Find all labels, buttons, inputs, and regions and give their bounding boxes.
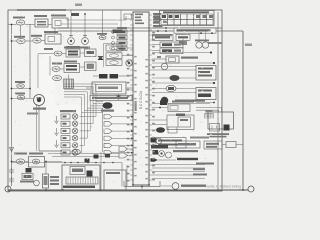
label NR1 above frame (75, 4, 82, 7)
fuel temp box (152, 104, 190, 112)
cold start valve box A (160, 42, 183, 48)
third oval (53, 75, 62, 80)
fusible link sym (17, 95, 25, 100)
label ignition SW (13, 17, 25, 19)
wire thermal row (152, 103, 210, 105)
small marks under meter (179, 39, 187, 46)
wire center long drop (102, 108, 104, 152)
credit text (205, 185, 241, 189)
cold start valve box B (160, 48, 183, 54)
ECU pin text col (135, 101, 137, 111)
check connector stems (199, 31, 206, 42)
inner box right (178, 117, 191, 127)
wire to container (152, 120, 167, 125)
tachometer circle (142, 183, 179, 190)
label AAC valve (181, 57, 198, 59)
label coil column (60, 110, 76, 112)
label ignition switch (15, 81, 25, 83)
dark hatched connector (64, 75, 74, 89)
label oil pressure switch (173, 150, 198, 152)
wire stair 2 (61, 23, 118, 25)
wire speedo bus 1 (58, 27, 222, 29)
label coils (64, 47, 90, 49)
wire signal rows (152, 165, 205, 179)
abs label (190, 137, 209, 139)
consult connector box (153, 35, 174, 41)
ignition switch sym (17, 84, 25, 89)
ECU inner pin labels left (134, 56, 136, 176)
label fuel pump relays (14, 153, 43, 155)
wire starter drop (37, 104, 40, 151)
fusible link 2 (9, 177, 14, 183)
injector resistor sym (166, 85, 176, 91)
data link box (176, 35, 190, 41)
label ECCS CU vertical (139, 90, 143, 109)
wire ign switch row (12, 88, 31, 90)
border frame (8, 10, 222, 191)
distributor circle (126, 60, 132, 66)
fuse row 2 (112, 36, 128, 40)
throttle valve switch box (208, 112, 234, 129)
fuel pump check sym (34, 180, 40, 186)
amplifier channels (104, 115, 133, 155)
SMJ box (62, 165, 100, 190)
battery terminal right (248, 186, 254, 192)
main relay box (45, 34, 61, 44)
wire long bottom bus (12, 162, 128, 187)
wire CAS to ECU (122, 48, 133, 56)
oil pressure switch (153, 150, 172, 158)
wire inj res (152, 89, 196, 93)
label tachometer (181, 185, 206, 187)
check connector circles (195, 40, 209, 49)
starter motor (34, 95, 45, 106)
relay ignition SW (16, 20, 24, 25)
small box top mid (124, 14, 132, 19)
right box R1 (196, 66, 216, 81)
wire throttle feed (196, 102, 222, 112)
EFI switch oval (44, 48, 62, 56)
box mid right row (176, 141, 200, 148)
MT AT box (104, 170, 126, 190)
ECU left pin numbers (127, 54, 130, 182)
wire long row A (152, 51, 212, 53)
ECU ECCS control unit (133, 12, 149, 185)
throttle comp 2 (224, 125, 230, 131)
wire relay row1 (8, 24, 52, 26)
row symbol dark (85, 154, 111, 163)
wire relay row2 (11, 40, 45, 42)
ECU top labels (135, 14, 144, 25)
label thermal transmitter (175, 100, 205, 102)
O2 sensor (170, 75, 180, 81)
label speedometer (152, 35, 172, 37)
label 12V tick (71, 10, 79, 16)
wire rocker (86, 87, 133, 89)
label right of check circles (208, 42, 222, 44)
label SMJ (63, 186, 95, 189)
label idle box (20, 181, 34, 183)
wire neutral row (152, 159, 176, 161)
diode on left bus (10, 148, 14, 152)
CAS container (104, 44, 125, 68)
label resistor (97, 33, 107, 35)
row symbol oval (72, 149, 80, 155)
wire coil stems (71, 14, 85, 35)
heater sw oval (52, 63, 62, 72)
fuel pump relay B (29, 157, 45, 168)
wire meter junctions (165, 27, 213, 34)
inner right frame line (217, 12, 219, 191)
ECU feed triangles (119, 147, 133, 159)
throttle comb connector (205, 111, 214, 119)
label neutral switch (177, 158, 198, 160)
node battery bus junctions (45, 189, 244, 191)
ignition coil B (82, 35, 89, 44)
wire relay drops (21, 25, 56, 38)
air regulator flat box (174, 28, 216, 33)
fusible link 1 (9, 168, 14, 174)
scan noise haze (10, 13, 220, 189)
wire fp drops (45, 162, 47, 191)
combination meter box (160, 11, 215, 26)
relay ignition 2 (33, 38, 41, 43)
heater relay box (64, 61, 80, 73)
wire left bus (11, 25, 13, 187)
wire stair 1 (66, 16, 126, 20)
wire o2 (152, 77, 196, 79)
ECU right pin ticks (149, 15, 152, 180)
thermal transmitter sym (161, 97, 169, 105)
dark bar component (93, 74, 133, 79)
CU label (176, 114, 185, 117)
asterisk sym (116, 95, 121, 100)
extra bus dots (11, 13, 86, 89)
label fuse rows (117, 27, 127, 29)
dark oval mid right (152, 127, 177, 133)
container box right (167, 115, 194, 130)
noise filter (98, 56, 104, 60)
wire temp sensor (152, 67, 196, 71)
CAS box 2 (106, 53, 122, 59)
labels left of meter (154, 14, 163, 27)
wire row mid dot (152, 82, 215, 84)
sensor box mid (85, 62, 97, 71)
label ECCS relay (51, 15, 66, 17)
ECU left pin ticks (130, 15, 133, 180)
AAC dark sym (26, 168, 32, 173)
coil connectors rows (61, 114, 78, 156)
wire aac (152, 56, 166, 59)
wire row1 mid (38, 52, 85, 55)
dark comp in SMJ (87, 171, 93, 177)
engine temp sensor (161, 63, 167, 69)
wire long row B (152, 62, 215, 64)
wire left bus 2 (29, 24, 31, 98)
outside frame item (222, 142, 243, 148)
ECCS relay box (52, 18, 68, 28)
idle box (22, 174, 33, 180)
label amplifier (101, 110, 114, 112)
ignition coil A (68, 35, 75, 44)
wire top bus (17, 9, 66, 11)
wire nest from amp header (82, 102, 104, 113)
ECU right pin numbers (152, 32, 155, 181)
CAS box 3 (106, 60, 122, 66)
wire right outer drop (242, 31, 244, 190)
neutral switch arrow (151, 158, 158, 162)
wire starter row (11, 98, 33, 100)
combination meter cells (161, 14, 213, 25)
power source box (156, 138, 186, 149)
fuse row 1 (112, 30, 128, 34)
wire bottom rows (48, 154, 119, 157)
ign coil amp header (90, 96, 132, 101)
wire row2 mid (60, 67, 85, 69)
label relay accessory (14, 36, 25, 38)
label fuse box F1 (34, 15, 47, 17)
ECU right top text rows (153, 13, 161, 27)
label signal rows (193, 163, 214, 176)
battery terminal left (5, 186, 11, 192)
fuse box F1 (35, 19, 48, 27)
fuse row 3 (112, 41, 128, 45)
wire starter bottom (39, 150, 62, 152)
box shift right row (204, 141, 222, 149)
ground arrows column (55, 116, 59, 148)
fuel pump relay A (16, 159, 24, 164)
label plus12 annotation (245, 44, 252, 47)
scan mottling (8, 10, 222, 191)
fuel pump body (43, 174, 49, 188)
combination meter title (163, 11, 209, 13)
ECU inner pin labels right (145, 59, 147, 179)
ECU bottom bracket (124, 181, 160, 187)
resistor sym (99, 35, 106, 39)
wire speedo bus 2 (58, 27, 243, 32)
label throttle valve switch (207, 133, 229, 137)
label hold dark (113, 30, 123, 34)
AAC valve box (166, 56, 179, 63)
throttle comp 1 (210, 124, 220, 132)
page background (0, 0, 256, 197)
wire fuse drop (120, 10, 122, 30)
wire harness bundle (64, 84, 96, 153)
wire battery bus (8, 189, 248, 191)
engine temp dark sym (160, 101, 194, 106)
fuse label box (70, 167, 85, 175)
label main relay (44, 31, 58, 33)
vehicle speed label strip (151, 138, 168, 148)
AC relay small (66, 46, 80, 57)
label fuel pump (50, 176, 59, 185)
wire cold start (152, 45, 160, 51)
throttle sensor box (85, 49, 97, 57)
relay accessory (17, 38, 25, 43)
rocker box (92, 82, 126, 94)
CAS box 1 (106, 45, 122, 51)
wire left cluster drops (38, 54, 50, 88)
wire bottom mid vertical (100, 152, 102, 190)
SMJ connector hatch (66, 177, 98, 184)
label fusible link (15, 93, 25, 95)
amplifier top icon (103, 102, 113, 109)
power source dark sym (151, 138, 157, 143)
wire resistor stem (102, 10, 104, 35)
fuse row 4 (112, 47, 128, 51)
label charge (27, 113, 38, 115)
label relay ignition 2 (31, 35, 42, 37)
wire fp row (11, 161, 62, 163)
right box R2 (196, 88, 216, 100)
label starter (33, 108, 46, 110)
